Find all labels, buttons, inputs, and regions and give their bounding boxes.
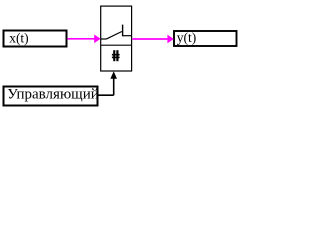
control wire horizontal: [98, 94, 114, 96]
arrowhead into y(t) (magenta): [167, 35, 173, 44]
wire switch to y(t) (magenta): [132, 38, 169, 40]
wire x(t) to switch (magenta): [67, 38, 95, 40]
svg-text:x(t): x(t): [9, 30, 29, 45]
hash symbol vertical 2: [116, 50, 118, 61]
control wire vertical: [113, 76, 115, 95]
arrowhead into switch (magenta): [94, 35, 100, 44]
svg-text:Управляющий: Управляющий: [7, 87, 99, 103]
block control box: [4, 87, 98, 106]
switch block U1 outline: [101, 6, 132, 71]
hash symbol horizontal 1: [112, 54, 120, 56]
svg-text:y(t): y(t): [177, 30, 197, 45]
block y(t) output box: [174, 31, 237, 46]
switch input stub: [101, 38, 107, 40]
switch output wire: [123, 35, 132, 37]
hash symbol vertical 1: [113, 50, 115, 61]
arrowhead into switch bottom (black): [110, 71, 117, 79]
switch contact bar: [122, 25, 124, 37]
switch block divider: [101, 44, 132, 46]
switch arm (diagonal): [107, 32, 122, 39]
hash symbol horizontal 2: [112, 57, 120, 59]
block x(t) input box: [4, 31, 67, 47]
